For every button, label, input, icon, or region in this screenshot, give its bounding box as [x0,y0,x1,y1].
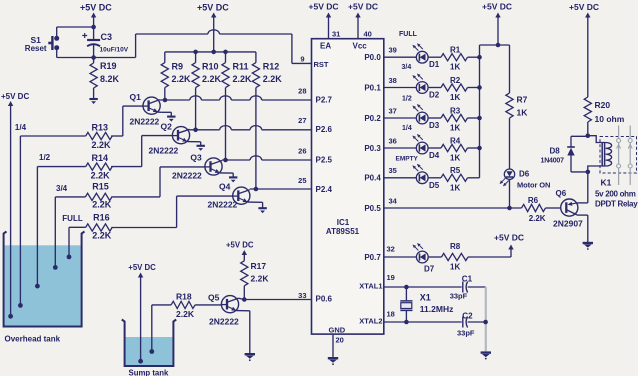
svg-text:+5V DC: +5V DC [494,233,524,243]
label 1/2 [402,96,412,103]
svg-text:R20: R20 [595,100,611,110]
svg-text:XTAL1: XTAL1 [359,281,382,290]
svg-text:Reset: Reset [25,44,47,53]
relay K1 coil [602,143,611,167]
svg-text:1N4007: 1N4007 [541,158,565,165]
svg-text:R18: R18 [176,291,192,301]
wire R13 to Q1 base [111,106,143,136]
power +5V DC (reset section) [80,3,112,28]
node R4 bus junction [477,146,482,151]
resistor R17 [241,261,270,300]
ground below Q1 [167,117,175,122]
svg-text:D6: D6 [519,170,530,179]
svg-text:RST: RST [314,60,329,69]
svg-text:R12: R12 [263,62,280,72]
resistor R11 [222,52,252,160]
wire relay coil top lead [588,136,606,143]
ground below Q6 [583,243,593,250]
node R1 bus junction [477,55,482,60]
svg-text:R16: R16 [93,213,110,223]
label Sump tank [129,369,170,376]
node R2 bus junction [477,85,482,90]
wire R5 to bus [468,177,480,179]
node rail junctions [193,50,228,55]
overhead tank water [5,245,81,326]
resistor R4 [441,136,468,162]
label 3/4 [402,64,412,71]
svg-text:R15: R15 [92,182,109,192]
wire reset top rail [57,26,94,28]
svg-text:+5V DC: +5V DC [80,3,112,13]
transistor Q1 2N2222 [130,92,161,127]
wire D1-R1 [428,56,441,58]
pin P2.5 26 [298,147,332,165]
svg-text:2N2222: 2N2222 [172,171,202,181]
svg-text:1K: 1K [450,263,460,272]
svg-text:1K: 1K [450,63,460,72]
pin P0.1 38 [364,76,397,92]
pin GND 20 [329,326,346,345]
wire xtal ground bus [485,287,487,352]
svg-text:K1: K1 [601,178,612,188]
power +5V DC (LED bus) [482,2,512,46]
svg-text:Q2: Q2 [161,122,173,132]
svg-text:P2.7: P2.7 [316,96,333,105]
svg-text:P2.4: P2.4 [316,185,333,194]
label IC1 [326,218,360,236]
wire D4-R4 [428,147,441,149]
svg-text:R13: R13 [92,122,109,132]
svg-text:1/4: 1/4 [15,123,27,132]
power +5V DC (Vcc) [348,2,378,12]
label K1 [601,178,612,188]
svg-text:D2: D2 [429,91,440,100]
node R3 bus junction [477,116,482,121]
ground below Q3 [229,177,237,182]
wire R1 to bus [468,56,480,58]
svg-text:D7: D7 [424,265,435,274]
resistor R10 [192,52,222,130]
svg-text:P2.6: P2.6 [316,125,333,134]
wire S1 top lead [56,27,58,37]
svg-text:2.2K: 2.2K [202,74,222,84]
svg-text:D1: D1 [429,60,440,69]
svg-text:EA: EA [320,42,331,51]
node 1/4 electrode tip [18,303,23,308]
LED D6 Motor ON [500,169,551,189]
transistor Q3 2N2222 [172,153,222,181]
svg-text:40: 40 [364,30,372,39]
svg-text:9: 9 [300,55,304,64]
svg-text:+5V DC: +5V DC [197,3,229,13]
label 1/4 [15,123,27,132]
wire pullup rail [165,51,256,53]
sump tank walls [122,320,176,367]
node overhead common electrode [8,314,13,319]
resistor R19 [90,58,120,99]
wire 1/2 sensor [37,167,85,287]
svg-text:2.2K: 2.2K [529,214,546,223]
ground below IC [328,358,338,365]
wire R6 to Q6 base [546,207,561,209]
crystal X1 [400,287,453,322]
svg-text:1K: 1K [450,124,460,133]
label EMPTY [396,156,419,163]
svg-text:2.2K: 2.2K [263,74,283,84]
wire Q1 collector to P2.7 [149,96,312,104]
transistor Q4 2N2222 [208,182,250,210]
svg-text:1/4: 1/4 [402,125,412,132]
svg-text:+5V DC: +5V DC [482,2,512,12]
node C2 bus junction [483,320,488,325]
svg-text:P0.2: P0.2 [364,114,381,123]
node XTAL2 junction [404,320,409,325]
transistor Q2 2N2222 [149,122,190,156]
wire R16 to Q4 base [111,196,232,227]
svg-text:FULL: FULL [399,31,418,38]
svg-text:R11: R11 [233,62,249,72]
svg-text:2N2222: 2N2222 [208,200,238,210]
wire relay coil bottom lead [588,166,606,172]
LED D1 [412,43,439,69]
wire Q3 emitter to ground [211,169,234,177]
pin XTAL2 18 [359,310,395,326]
svg-text:32: 32 [387,245,395,254]
switch S1 Reset [25,35,59,53]
resistor R1 [441,46,468,72]
resistor R16 [86,213,112,241]
wire XTAL1 line [384,286,462,288]
wire Q3 collector to P2.5 [211,156,312,165]
wire R3 to bus [468,117,480,119]
resistor R9 [161,52,191,100]
wire Q6 collector down [578,215,588,243]
wire R4 to bus [468,147,480,149]
node D6-P0.5 junction [507,206,512,211]
wire D5 anode lead [384,177,417,179]
svg-text:33pF: 33pF [457,329,475,338]
wire R18 to Q5 base [195,304,221,306]
svg-text:GND: GND [329,326,346,335]
svg-text:11.2MHz: 11.2MHz [420,304,454,314]
wire D2 anode lead [384,87,417,89]
label FULL [399,31,418,38]
svg-text:+5V DC: +5V DC [1,92,29,101]
pin P0.7 32 [364,245,395,262]
LED D4 [412,134,439,160]
svg-text:P0.6: P0.6 [316,295,333,304]
svg-text:C2: C2 [462,312,473,321]
resistor R20 [584,97,625,136]
svg-text:10uF/10V: 10uF/10V [100,47,129,54]
pin P2.4 25 [298,176,332,194]
wire XTAL2 line [384,321,462,323]
svg-text:R8: R8 [450,242,461,251]
LED D3 [412,104,439,130]
pin XTAL1 19 [359,273,395,290]
svg-text:36: 36 [389,136,397,145]
svg-text:R10: R10 [202,62,219,72]
wire D3-R3 [428,117,441,119]
svg-text:R4: R4 [450,136,461,145]
relay K1 contacts [617,126,633,186]
svg-text:26: 26 [298,147,306,156]
svg-text:39: 39 [389,46,397,55]
LED D7 [413,243,435,274]
node R9-P2.7 junction [163,98,168,103]
node R11-P2.5 junction [223,158,228,163]
svg-text:R5: R5 [450,166,461,175]
power +5V DC (R17) [226,241,254,261]
svg-text:28: 28 [298,87,306,96]
node D8-coil-Q6 junction [586,170,591,175]
label 1/2 [39,153,51,162]
LED D2 [412,74,439,100]
wire Q2 collector to P2.6 [178,126,312,134]
pin P0.6 33 [298,291,332,304]
pin Vcc 40 [353,13,372,51]
svg-text:1K: 1K [450,183,460,192]
power +5V DC (overhead sensor) [1,92,29,316]
svg-text:IC1: IC1 [337,218,350,227]
svg-text:Sump tank: Sump tank [129,369,170,376]
svg-text:R3: R3 [450,106,461,115]
wire Q5 emitter to ground [227,306,250,354]
wire P0.7 lead [384,256,417,258]
wire RST net [94,30,312,64]
pin P0.2 37 [364,106,397,122]
svg-text:Q1: Q1 [130,92,142,102]
svg-text:1/2: 1/2 [39,153,51,162]
wire FULL sensor [69,227,86,257]
svg-text:2N2222: 2N2222 [130,117,160,127]
svg-text:2.2K: 2.2K [92,200,112,210]
svg-text:33: 33 [298,291,306,300]
label 1/4 [402,125,412,132]
node C3-R19 junction [91,55,96,60]
node sump common electrode [138,359,143,364]
svg-text:2.2K: 2.2K [91,171,111,181]
power +5V DC (relay) [569,2,599,97]
node R12-P2.4 junction [254,187,259,192]
resistor R6 [522,196,546,223]
wire D5-R5 [428,177,441,179]
svg-text:1K: 1K [450,93,460,102]
ground below R19 [89,99,97,104]
wire R8 to +5V [468,245,514,258]
svg-text:3/4: 3/4 [402,64,412,71]
wire S1 bottom lead [57,48,94,58]
svg-text:1/2: 1/2 [402,96,412,103]
svg-text:FULL: FULL [62,214,83,223]
svg-text:1K: 1K [517,108,529,118]
svg-text:31: 31 [332,30,340,39]
svg-text:D3: D3 [429,121,440,130]
node R10-P2.6 junction [193,128,198,133]
wire P0.5 to R6 [384,207,522,209]
node bus feed junction [496,43,501,48]
resistor R18 [171,291,195,318]
ground below Q2 [197,146,205,151]
svg-text:AT89S51: AT89S51 [326,227,360,236]
svg-text:2N2907: 2N2907 [553,219,583,229]
svg-text:XTAL2: XTAL2 [359,316,382,325]
svg-text:37: 37 [389,106,397,115]
svg-text:D8: D8 [550,147,561,156]
svg-text:DPDT Relay: DPDT Relay [595,200,638,209]
svg-text:2.2K: 2.2K [92,231,112,241]
svg-text:P0.3: P0.3 [364,144,381,153]
wire sump sensor [152,305,171,352]
svg-text:Overhead tank: Overhead tank [5,335,61,344]
svg-text:18: 18 [387,310,395,319]
label DPDT Relay [595,200,638,209]
svg-text:+5V DC: +5V DC [309,2,339,12]
power +5V DC (sump) [128,263,156,361]
ground below Q5 [245,354,255,361]
wire Q4 emitter to ground [238,198,262,208]
svg-text:Motor ON: Motor ON [517,180,550,189]
resistor R2 [441,76,468,102]
wire 3/4 sensor [55,197,85,268]
svg-text:D4: D4 [429,151,440,160]
wire D7-R8 [428,256,441,258]
svg-text:2.2K: 2.2K [251,274,270,284]
wire D8 top link [571,135,588,137]
node R17-P0.6 junction [242,297,247,302]
svg-text:P0.4: P0.4 [364,174,381,183]
resistor R13 [86,122,112,150]
node 3/4 electrode tip [53,265,58,270]
pin P0.0 39 [364,46,397,62]
svg-text:+5V DC: +5V DC [226,241,254,250]
svg-text:P0.5: P0.5 [364,204,381,213]
svg-text:35: 35 [389,166,397,175]
resistor R8 [442,242,469,272]
pin P0.5 34 [364,196,397,212]
svg-text:Q6: Q6 [556,189,567,198]
pin P2.7 28 [298,87,332,105]
svg-text:+5V DC: +5V DC [128,263,156,272]
svg-text:1K: 1K [450,154,460,163]
svg-text:38: 38 [389,76,397,85]
node FULL electrode tip [67,255,72,260]
svg-text:2.2K: 2.2K [233,74,253,84]
svg-text:+5V DC: +5V DC [348,2,378,12]
label 5v 200 ohm [595,190,636,199]
svg-text:19: 19 [387,273,395,282]
wire C1 to bus [468,286,486,288]
svg-text:C3: C3 [101,32,113,42]
svg-text:2N2222: 2N2222 [149,146,179,156]
ground below Q4 [258,208,266,213]
svg-text:27: 27 [298,116,306,125]
svg-text:R17: R17 [251,261,267,271]
power +5V DC (EA) [309,2,339,12]
pin RST 9 [300,55,329,70]
svg-text:2.2K: 2.2K [176,309,195,319]
svg-text:10 ohm: 10 ohm [595,114,625,124]
svg-text:2.2K: 2.2K [92,140,112,150]
svg-text:P0.1: P0.1 [364,83,381,92]
svg-text:R6: R6 [528,196,539,205]
wire R14 to Q2 base [111,136,172,167]
IC U1 AT89S51 body [312,39,384,334]
transistor Q6 2N2907 [553,189,583,229]
capacitor C2 [457,312,475,338]
svg-text:R7: R7 [517,95,528,105]
label FULL [62,214,83,223]
svg-text:8.2K: 8.2K [100,74,120,84]
svg-text:P0.7: P0.7 [364,253,381,262]
wire Q4 collector to P2.4 [238,189,311,194]
svg-text:P0.0: P0.0 [364,53,381,62]
svg-text:EMPTY: EMPTY [396,156,419,163]
node R20-D8 junction [586,133,591,138]
pin P0.4 35 [364,166,397,182]
svg-text:Q5: Q5 [208,293,220,303]
svg-text:D5: D5 [429,181,440,190]
wire D1 anode lead [384,56,417,58]
label Overhead tank [5,335,61,344]
pin P0.3 36 [364,136,397,152]
resistor R14 [86,153,112,181]
svg-text:P2.5: P2.5 [316,155,333,164]
diode D8 1N4007 [541,136,575,172]
wire R2 to bus [468,87,480,89]
resistor R7 [506,45,528,169]
svg-text:X1: X1 [420,293,431,303]
wire C2 to bus [468,321,486,323]
resistor R5 [441,166,468,192]
wire D4 anode lead [384,147,417,149]
svg-text:C1: C1 [462,275,473,284]
wire GND lead [332,334,334,358]
svg-text:5v 200 ohm: 5v 200 ohm [595,190,636,199]
svg-text:33pF: 33pF [450,292,468,301]
svg-text:R14: R14 [92,153,109,163]
node reset-top junction [91,25,96,30]
wire D6 cathode [509,179,511,208]
svg-text:R2: R2 [450,76,461,85]
LED D5 [412,164,439,190]
svg-text:25: 25 [298,176,306,185]
power +5V DC (P0.7 pull-up) [494,233,524,243]
svg-text:3/4: 3/4 [56,184,68,193]
wire P0.6 line [244,299,311,301]
svg-text:20: 20 [336,336,344,345]
node XTAL1 junction [404,285,409,290]
resistor R15 [85,182,111,210]
svg-text:34: 34 [389,196,398,205]
resistor R12 [252,52,282,189]
svg-text:R9: R9 [172,62,184,72]
wire LED supply bus [480,45,510,178]
wire Q5 collector [227,298,244,302]
svg-text:Vcc: Vcc [353,42,368,51]
wire D3 anode lead [384,117,417,119]
svg-text:+5V DC: +5V DC [569,2,599,12]
wire Q6 emitter up [578,172,588,203]
wire D8 bottom link [571,171,588,173]
relay K1 box [600,137,637,174]
label 3/4 [56,184,68,193]
svg-text:2.2K: 2.2K [172,74,192,84]
pin EA 31 [320,13,340,51]
node 1/2 electrode tip [35,284,40,289]
capacitor C3 [82,27,129,58]
wire 1/4 sensor [20,136,85,305]
